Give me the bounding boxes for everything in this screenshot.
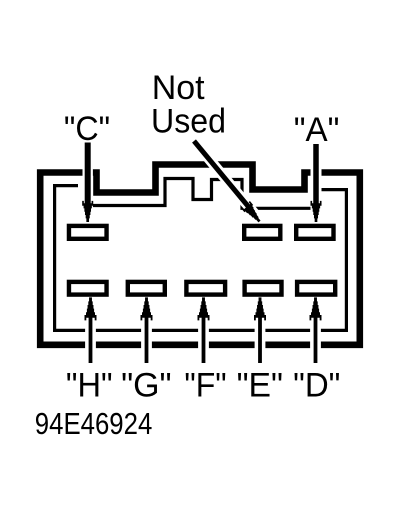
svg-text:"G": "G" [121, 366, 171, 404]
svg-text:Not: Not [152, 69, 205, 107]
terminal D cavity [297, 282, 335, 295]
svg-text:"E": "E" [237, 366, 283, 404]
terminal A cavity [296, 226, 333, 239]
leader arrow for Not Used terminal (diagonal) [194, 141, 264, 225]
terminal C cavity [69, 226, 107, 239]
leader arrow for terminal F (pointing up) [198, 297, 210, 363]
terminal G cavity [128, 282, 165, 295]
svg-text:Used: Used [151, 103, 226, 141]
svg-text:"H": "H" [66, 367, 113, 405]
svg-text:"D": "D" [293, 367, 340, 405]
leader arrow for terminal C (pointing down) [82, 143, 93, 223]
leader arrow for terminal H (pointing up) [85, 297, 97, 363]
leader arrow for terminal A (pointing down) [310, 144, 321, 222]
svg-text:94E46924: 94E46924 [35, 407, 153, 442]
svg-text:"C": "C" [64, 110, 110, 148]
terminal H cavity [69, 282, 107, 295]
terminal F cavity [186, 282, 225, 295]
leader arrow for terminal E (pointing up) [254, 297, 266, 363]
terminal E cavity [245, 282, 282, 295]
terminal Not-Used cavity [244, 226, 280, 239]
connector body outer outline (keyed top edge) [40, 165, 360, 345]
leader arrow for terminal G (pointing up) [141, 297, 153, 363]
leader arrow for terminal D (pointing up) [310, 297, 322, 363]
white casing gaps where leader arrows cross the outlines [88, 141, 316, 360]
connector body inner outline (keyed top edge with keyway notch) [55, 179, 347, 331]
svg-text:"A": "A" [294, 112, 340, 149]
svg-text:"F": "F" [184, 366, 226, 404]
